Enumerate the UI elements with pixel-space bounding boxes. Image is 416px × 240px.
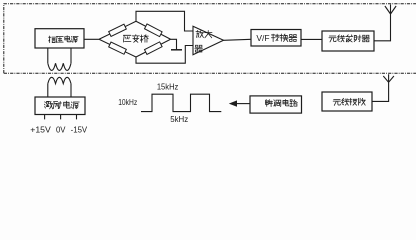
svg-text:15kHz: 15kHz: [157, 83, 179, 92]
svg-text:-15V: -15V: [71, 125, 88, 135]
svg-text:5kHz: 5kHz: [170, 115, 188, 124]
svg-text:+15V: +15V: [30, 125, 51, 135]
svg-text:0V: 0V: [56, 125, 66, 135]
svg-text:V/F: V/F: [256, 33, 269, 43]
svg-text:10kHz: 10kHz: [118, 98, 137, 107]
